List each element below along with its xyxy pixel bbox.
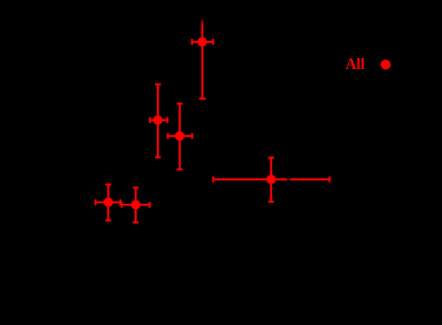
svg-text:All: All xyxy=(346,56,366,73)
